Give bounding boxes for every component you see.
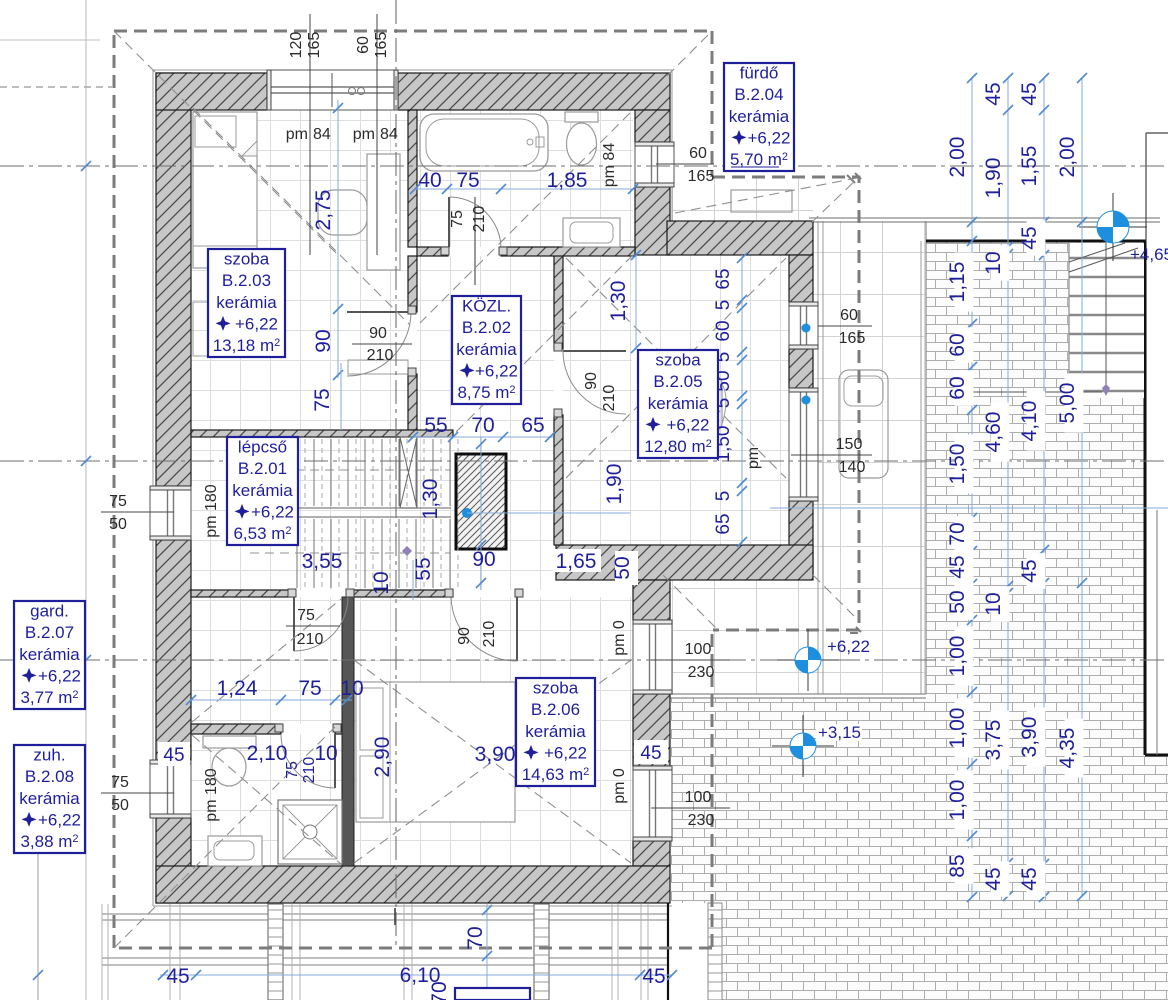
bathtub: [420, 114, 548, 171]
svg-text:60: 60: [946, 376, 969, 399]
svg-text:75: 75: [449, 210, 466, 228]
svg-text:3,90: 3,90: [475, 743, 516, 766]
svg-text:45: 45: [166, 965, 189, 988]
svg-text:100: 100: [685, 789, 712, 806]
svg-text:10: 10: [982, 592, 1005, 615]
svg-text:zuh.: zuh.: [33, 746, 65, 765]
partition B203-KOZL mid: [408, 256, 417, 312]
wall top left segment: [156, 73, 267, 110]
room grid KOZL: [417, 256, 554, 590]
svg-text:pm: pm: [286, 126, 308, 143]
svg-text:210: 210: [471, 206, 488, 233]
survey point +6,22: [777, 659, 839, 661]
wall top right segment: [398, 73, 670, 110]
svg-text:+6,22: +6,22: [827, 637, 870, 656]
svg-text:70: 70: [471, 414, 494, 437]
wall right above window: [635, 110, 670, 142]
balcony bottom slab edge: [670, 693, 926, 695]
right dim chain x972: [971, 78, 973, 897]
svg-text:13,18 m2: 13,18 m2: [213, 336, 281, 355]
stair walk line: [1105, 243, 1107, 392]
left margin dim line: [37, 747, 39, 1000]
hip diagonal top-left: [114, 31, 340, 257]
diagonals B.2.05 X: [566, 258, 786, 478]
svg-text:45: 45: [1018, 559, 1041, 582]
svg-text:230: 230: [688, 664, 715, 681]
svg-text:1,30: 1,30: [419, 479, 442, 520]
room grid stair hall: [191, 437, 451, 590]
door gard (75) leaf+arc: [293, 597, 295, 651]
dim pergola 45/6,10/45: [160, 974, 672, 976]
extension right wall seg1: [789, 255, 813, 302]
lounge chair balcony: [839, 370, 888, 478]
svg-text:85: 85: [946, 854, 969, 877]
svg-text:14,63 m2: 14,63 m2: [522, 765, 590, 784]
armchair B.2.03: [318, 190, 367, 235]
svg-text:150: 150: [836, 436, 863, 453]
wardrobe B.2.03: [367, 154, 400, 270]
svg-text:70: 70: [464, 926, 487, 949]
planter terrace top: [731, 190, 792, 212]
svg-text:45: 45: [1018, 82, 1041, 105]
right dim chain x1008: [1007, 78, 1009, 896]
label szoba B.2.06: [516, 678, 595, 786]
dim 1,30 B205 entry: [635, 252, 637, 350]
room grid zuh: [191, 734, 342, 866]
centreline y660: [0, 659, 1168, 661]
svg-text:kerámia: kerámia: [456, 340, 517, 359]
hip diagonal bottom-left: [114, 727, 335, 948]
svg-text:45: 45: [163, 745, 184, 766]
svg-text:65: 65: [521, 414, 544, 437]
svg-text:75: 75: [284, 761, 301, 779]
svg-text:45: 45: [982, 867, 1005, 890]
bath south wall left: [417, 247, 448, 256]
svg-text:kerámia: kerámia: [648, 394, 709, 413]
balcony glazing edge lines: [817, 221, 819, 694]
svg-text:50: 50: [611, 556, 634, 579]
stair railing brace: [400, 437, 417, 508]
dim B205 interior column 65/5/60/5/50/5/1,50/5/65: [741, 255, 743, 545]
wall left upper: [156, 73, 191, 486]
svg-text:+6,22: +6,22: [544, 743, 587, 762]
svg-text:45: 45: [640, 743, 661, 764]
svg-text:+4,65: +4,65: [1130, 245, 1168, 264]
dim extension line y508: [770, 507, 1168, 509]
hip extension top: [675, 178, 857, 213]
svg-text:kerámia: kerámia: [232, 481, 293, 500]
svg-text:+6,22: +6,22: [475, 361, 518, 380]
window ext 60-165: [789, 302, 818, 349]
svg-text:2,75: 2,75: [312, 190, 335, 231]
svg-text:B.2.03: B.2.03: [222, 271, 271, 290]
wall B206 right seg2: [633, 841, 670, 866]
dim top bath 40/75/185: [415, 188, 633, 190]
svg-text:60: 60: [946, 333, 969, 356]
exterior stair top right: [1069, 243, 1144, 398]
svg-text:90: 90: [369, 325, 387, 342]
partition B203-bath upper: [408, 110, 417, 247]
chair B.2.05: [688, 375, 722, 432]
svg-text:szoba: szoba: [533, 679, 579, 698]
svg-text:45: 45: [982, 82, 1005, 105]
pergola posts: [268, 904, 283, 1000]
label gard B.2.07: [14, 601, 85, 709]
partition KOZL-B205 upper: [554, 255, 563, 349]
purple node stair: [402, 546, 412, 556]
door B.2.03 (90) leaf+arc: [347, 311, 411, 313]
svg-text:70: 70: [946, 522, 969, 545]
bath south wall right: [501, 247, 635, 256]
brick paving lower right: [671, 698, 926, 903]
svg-text:90: 90: [312, 329, 335, 352]
svg-text:szoba: szoba: [224, 250, 270, 269]
diagonal zuh: [192, 735, 341, 864]
svg-text:2,90: 2,90: [371, 737, 394, 778]
svg-text:90: 90: [456, 627, 473, 645]
svg-text:5,70 m2: 5,70 m2: [730, 150, 788, 169]
svg-text:3,75: 3,75: [982, 720, 1005, 761]
room grid B.2.05: [563, 255, 789, 545]
extension top wall: [667, 221, 813, 255]
svg-text:50: 50: [946, 590, 969, 613]
svg-text:75: 75: [297, 607, 315, 624]
door zuh (75) leaf+arc: [334, 734, 336, 788]
dim KOZL 55/70/65 row: [413, 436, 553, 438]
wall tag 45 left zuh: [158, 742, 190, 766]
svg-text:gard.: gard.: [30, 602, 69, 621]
svg-text:6,53 m2: 6,53 m2: [233, 524, 291, 543]
svg-text:45: 45: [946, 555, 969, 578]
svg-text:40: 40: [418, 169, 441, 192]
window left upper pm180: [150, 486, 191, 540]
label szoba B.2.03: [208, 249, 285, 357]
svg-text:kerámia: kerámia: [19, 789, 80, 808]
svg-text:1,24: 1,24: [217, 677, 258, 700]
dim B.2.03 bottom 75: [340, 363, 342, 430]
label lepcso B.2.01: [227, 437, 298, 545]
svg-text:230: 230: [688, 812, 715, 829]
svg-text:3,55: 3,55: [302, 550, 343, 573]
svg-text:B.2.01: B.2.01: [238, 459, 287, 478]
stair walk dashes: [250, 469, 451, 471]
svg-text:+6,22: +6,22: [747, 128, 790, 147]
svg-text:3,77 m2: 3,77 m2: [20, 688, 78, 707]
washbasin zuh: [208, 836, 262, 866]
centreline y166: [0, 165, 1168, 167]
svg-text:84: 84: [380, 126, 398, 143]
svg-text:60: 60: [713, 320, 734, 341]
stairhall south wall right: [348, 590, 453, 597]
svg-text:1,55: 1,55: [1018, 146, 1041, 187]
blue node chimney: [462, 508, 472, 518]
survey point +3,15: [772, 745, 834, 747]
window B206 lower 100-230: [633, 766, 672, 841]
svg-text:1,00: 1,00: [946, 636, 969, 677]
svg-text:1,85: 1,85: [547, 169, 588, 192]
svg-text:75: 75: [311, 388, 334, 411]
dim B.2.03 vertical 2,75 / 90: [337, 100, 339, 378]
pergola rafters: [169, 904, 171, 1000]
right dim chain x1082: [1081, 78, 1083, 896]
label KOZL B.2.02: [452, 296, 521, 404]
door corridor (90) leaf+arc: [516, 597, 518, 661]
left window tags 75/50 pm180: [101, 511, 174, 513]
extension right wall pier: [789, 349, 813, 388]
wall left lower: [156, 818, 191, 903]
wall bottom: [156, 866, 670, 903]
svg-text:3,88 m2: 3,88 m2: [20, 832, 78, 851]
svg-text:kerámia: kerámia: [729, 107, 790, 126]
svg-text:55: 55: [424, 414, 447, 437]
svg-text:75: 75: [298, 677, 321, 700]
svg-text:B.2.04: B.2.04: [734, 85, 783, 104]
svg-text:pm 0: pm 0: [611, 620, 628, 656]
valley diagonal KOZL: [455, 255, 633, 433]
pergola tick mark: [394, 908, 396, 925]
svg-text:2,00: 2,00: [1056, 137, 1079, 178]
svg-text:210: 210: [301, 757, 318, 784]
svg-text:45: 45: [642, 965, 665, 988]
neighbour outline top right: [1146, 132, 1168, 134]
bed B.2.06: [356, 682, 515, 822]
svg-text:B.2.06: B.2.06: [531, 700, 580, 719]
wall B206 right seg1: [633, 580, 670, 620]
svg-text:90: 90: [472, 548, 495, 571]
svg-text:B.2.02: B.2.02: [462, 318, 511, 337]
svg-text:60: 60: [689, 145, 707, 162]
margin line top: [0, 39, 100, 41]
hip extension bottom: [663, 575, 717, 629]
svg-text:45: 45: [1018, 226, 1041, 249]
shower zuh: [278, 800, 342, 864]
room grid gard: [191, 597, 342, 724]
svg-text:szoba: szoba: [655, 351, 701, 370]
svg-text:4,60: 4,60: [982, 412, 1005, 453]
room grid B.2.03: [191, 110, 408, 430]
svg-text:140: 140: [839, 459, 866, 476]
svg-text:1,15: 1,15: [946, 262, 969, 303]
margin crossing ticks: [81, 161, 91, 171]
wall tag 45 stair left: [242, 511, 270, 533]
dim pergola 70 vertical: [486, 904, 488, 1000]
svg-text:210: 210: [481, 621, 498, 648]
zuh north wall jamb: [335, 724, 342, 734]
svg-text:B.2.08: B.2.08: [25, 767, 74, 786]
svg-text:12,80 m2: 12,80 m2: [644, 437, 712, 456]
svg-text:3,90: 3,90: [1018, 717, 1041, 758]
terrace thick top edge: [926, 240, 1146, 243]
svg-text:75: 75: [456, 169, 479, 192]
dim chimney 1,30 / 90 / 55: [480, 437, 482, 590]
svg-text:84: 84: [313, 126, 331, 143]
valley diagonal bath: [420, 113, 630, 323]
partition gard/zuh - B.2.06 (solid): [342, 597, 354, 866]
right window tag 60/165 pm84: [656, 163, 714, 165]
svg-text:+6,22: +6,22: [235, 314, 278, 333]
window left lower pm180: [150, 760, 191, 818]
window ext 150-140: [789, 388, 818, 501]
balcony floor grid: [813, 221, 926, 694]
svg-text:pm 180: pm 180: [203, 484, 220, 537]
svg-text:1,90: 1,90: [603, 464, 626, 505]
svg-text:2,10: 2,10: [247, 742, 288, 765]
svg-text:165: 165: [306, 32, 323, 59]
brick paving right terrace: [926, 241, 1146, 1000]
dim 1,65 / 50 corridor-B205: [553, 549, 601, 572]
balcony top slab edge: [809, 217, 1160, 219]
svg-text:1,30: 1,30: [607, 281, 630, 322]
svg-text:210: 210: [297, 631, 324, 648]
svg-text:70: 70: [428, 981, 451, 1000]
svg-text:75: 75: [111, 774, 129, 791]
centreline x396 vertical: [395, 0, 397, 948]
chimney block: [456, 454, 506, 549]
window right pm84: [635, 142, 674, 187]
svg-text:165: 165: [688, 168, 715, 185]
door bath leader line: [474, 197, 476, 285]
ext window tags 60/165 and 150/140: [818, 325, 872, 327]
partition KOZL-B205 lower: [554, 415, 563, 545]
svg-text:kerámia: kerámia: [19, 645, 80, 664]
svg-text:4,35: 4,35: [1056, 728, 1079, 769]
svg-text:pm 180: pm 180: [203, 768, 220, 821]
dim corridor 1,24/75/10: [191, 699, 352, 701]
room grid B.2.06 + corridor: [354, 597, 633, 866]
pergola small post right: [708, 903, 722, 1000]
margin dashed line: [0, 86, 112, 88]
stairhall south wall left: [191, 590, 294, 597]
diagonal gard: [192, 599, 341, 722]
bed B.2.03: [193, 112, 257, 268]
svg-text:60: 60: [840, 307, 858, 324]
svg-text:pm 0: pm 0: [611, 768, 628, 804]
svg-text:+6,22: +6,22: [251, 502, 294, 521]
stair flights: [296, 439, 298, 506]
toilet bath: [565, 112, 598, 122]
stairhall north wall: [191, 430, 453, 437]
svg-text:75: 75: [109, 493, 127, 510]
svg-text:10: 10: [370, 571, 393, 594]
svg-text:50: 50: [109, 516, 127, 533]
wall tag 45 right B205: [632, 356, 670, 384]
building outer plaster line: [153, 69, 672, 71]
svg-text:60: 60: [355, 36, 372, 54]
pergola beams: [102, 913, 668, 915]
svg-text:+6,22: +6,22: [38, 810, 81, 829]
stair cut diagonal: [1069, 243, 1125, 262]
partition B203-KOZL low: [408, 374, 417, 430]
roof overhang outline extension: [712, 177, 859, 630]
extension bottom wall: [556, 545, 813, 580]
bottom centre partial label box: [455, 988, 530, 1000]
wall tag 45 right B206: [634, 740, 668, 764]
door B.2.05 (90) leaf+arc: [563, 350, 626, 352]
right dim chain x1044: [1043, 78, 1045, 897]
svg-text:pm 84: pm 84: [601, 143, 618, 188]
dresser B.2.03 left: [193, 302, 248, 356]
svg-text:1,90: 1,90: [982, 158, 1005, 199]
svg-text:B.2.07: B.2.07: [25, 623, 74, 642]
svg-text:+3,15: +3,15: [818, 723, 861, 742]
svg-text:165: 165: [373, 32, 390, 59]
label szoba B.2.05: [638, 350, 718, 458]
svg-text:5,00: 5,00: [1056, 383, 1079, 424]
svg-text:+6,22: +6,22: [666, 415, 709, 434]
label zuh B.2.08: [14, 745, 85, 853]
window B206 upper 100-230: [633, 620, 672, 694]
centreline y461: [0, 460, 1168, 462]
svg-text:10: 10: [982, 251, 1005, 274]
svg-text:kerámia: kerámia: [525, 722, 586, 741]
zuh north wall: [191, 724, 281, 734]
svg-text:fürdő: fürdő: [740, 64, 779, 83]
survey point +4,65: [1079, 226, 1147, 228]
door jambs: [441, 247, 449, 255]
wall left middle: [156, 540, 191, 760]
desk B.2.03 bottom: [348, 360, 408, 374]
washbasin bath: [563, 218, 620, 247]
svg-text:100: 100: [685, 641, 712, 658]
svg-text:120: 120: [288, 32, 305, 59]
svg-text:1,00: 1,00: [946, 780, 969, 821]
diagonals B.2.06 X: [354, 660, 631, 863]
door bath (75) leaf+arc: [448, 197, 450, 247]
svg-text:pm: pm: [745, 447, 762, 469]
svg-text:+6,22: +6,22: [38, 666, 81, 685]
brick paving bottom-right corner strip: [1146, 755, 1168, 1000]
wall B206 right pier: [633, 694, 670, 766]
svg-text:90: 90: [583, 372, 600, 390]
svg-text:55: 55: [412, 557, 435, 580]
svg-text:1,50: 1,50: [946, 444, 969, 485]
roof overhang outline main: [114, 31, 712, 948]
svg-text:50: 50: [111, 797, 129, 814]
terrace edge turn to sheet edge: [1145, 754, 1168, 757]
svg-text:pm: pm: [353, 126, 375, 143]
diagonal B.2.03: [193, 108, 410, 325]
hip diagonal top-right corner: [667, 31, 712, 76]
sheet margin vertical line: [85, 0, 87, 1000]
svg-text:1,00: 1,00: [946, 708, 969, 749]
svg-text:165: 165: [839, 330, 866, 347]
extension right wall seg2: [789, 501, 813, 573]
label furdo B.2.04: [724, 63, 794, 171]
svg-text:5: 5: [713, 491, 734, 502]
svg-text:45: 45: [1018, 867, 1041, 890]
top window tags: [309, 14, 311, 255]
svg-text:210: 210: [367, 347, 394, 364]
svg-text:5: 5: [713, 300, 734, 311]
svg-text:65: 65: [713, 513, 734, 534]
svg-text:210: 210: [601, 385, 618, 412]
toilet zuh: [203, 736, 256, 748]
svg-text:KÖZL.: KÖZL.: [462, 297, 511, 316]
svg-text:B.2.05: B.2.05: [653, 372, 702, 391]
svg-text:lépcső: lépcső: [238, 438, 287, 457]
dim corridor 55 bottom: [412, 560, 414, 600]
pergola right edge line: [667, 903, 669, 1000]
B206 window tags 100/230: [651, 659, 730, 661]
svg-text:8,75 m2: 8,75 m2: [457, 383, 515, 402]
svg-text:4,10: 4,10: [1018, 401, 1041, 442]
wall right below window: [635, 187, 670, 255]
svg-text:2,00: 2,00: [946, 137, 969, 178]
svg-text:1,65: 1,65: [556, 550, 597, 573]
terrace thick right edge: [1144, 241, 1147, 755]
svg-text:65: 65: [713, 268, 734, 289]
window top 120+60: [267, 70, 398, 110]
